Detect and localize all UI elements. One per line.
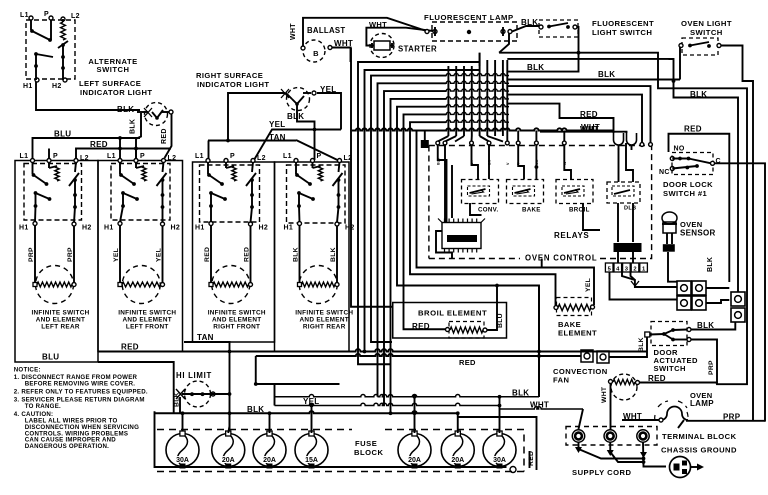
ballast xyxy=(303,40,325,62)
relay CONV. box xyxy=(462,180,499,204)
alternate switch terminal H2 xyxy=(63,78,67,82)
svg-text:RED: RED xyxy=(684,125,702,134)
infinite switch left rear L2 contact xyxy=(75,162,76,172)
svg-text:H1: H1 xyxy=(104,225,114,232)
element right rear wires xyxy=(299,226,301,285)
svg-text:BLOCK: BLOCK xyxy=(354,448,384,457)
right margin plug pair xyxy=(731,292,745,306)
wire stair 10 to bake right xyxy=(417,131,595,306)
wire door switch to plug xyxy=(691,322,735,330)
wire lamp right down to lattice xyxy=(499,34,509,53)
alternate switch L2 contact xyxy=(58,41,68,48)
svg-text:H2: H2 xyxy=(259,225,269,232)
svg-text:RED: RED xyxy=(459,358,476,367)
wire oven light switch left down xyxy=(680,48,681,80)
svg-text:NC: NC xyxy=(659,169,670,176)
infinite switch left front coil xyxy=(142,166,146,181)
wire fuse feed B xyxy=(275,395,540,397)
element left rear wires xyxy=(34,226,36,285)
wire RED long xyxy=(98,349,647,351)
infinite switch left front L2 contact xyxy=(163,162,164,172)
infinite switch left rear terminal L1 xyxy=(31,159,35,163)
wire pin bake xyxy=(518,145,524,179)
svg-text:INDICATOR LIGHT: INDICATOR LIGHT xyxy=(80,88,152,97)
wire stair 2 to RED xyxy=(365,70,481,352)
wire RED from indicator to L2 xyxy=(165,114,172,158)
svg-text:WHT: WHT xyxy=(290,23,297,40)
svg-text:L1: L1 xyxy=(283,153,292,160)
svg-text:HI LIMIT: HI LIMIT xyxy=(176,371,212,380)
fuse 20A at x=414.5 xyxy=(398,434,431,467)
svg-text:H1: H1 xyxy=(23,83,33,90)
svg-text:RED: RED xyxy=(90,140,108,149)
svg-text:BLK: BLK xyxy=(330,247,337,262)
svg-text:20A: 20A xyxy=(451,457,464,464)
oven control pins xyxy=(436,141,440,145)
svg-text:BAKE: BAKE xyxy=(522,207,541,214)
svg-text:INDICATOR LIGHT: INDICATOR LIGHT xyxy=(197,80,269,89)
infinite switch left front terminal P xyxy=(134,159,138,163)
infinite switch right front enclosure xyxy=(193,162,275,342)
wire stair 3 to TAN xyxy=(371,76,446,342)
ballast terminal left xyxy=(301,46,305,50)
svg-text:INFINITE SWITCH: INFINITE SWITCH xyxy=(118,310,176,317)
infinite switch right front terminal P xyxy=(224,159,228,163)
wire stair 4 xyxy=(378,83,447,396)
fuse block dashed box xyxy=(157,430,524,472)
wire stair 9 to bake left xyxy=(410,122,556,305)
wire lattice apex xyxy=(479,53,481,66)
svg-text:BLU: BLU xyxy=(54,130,71,139)
infinite switch left front contacts xyxy=(119,162,121,174)
svg-text:H2: H2 xyxy=(82,225,92,232)
svg-text:YEL: YEL xyxy=(113,248,120,262)
wire fuse feed E xyxy=(458,417,537,470)
svg-text:FLUORESCENT: FLUORESCENT xyxy=(592,19,654,28)
svg-text:BALLAST: BALLAST xyxy=(307,26,345,35)
wire stair 5 xyxy=(384,91,446,405)
door plug pair left xyxy=(677,281,691,295)
svg-text:BLU: BLU xyxy=(497,313,504,328)
hi limit contacts xyxy=(190,392,194,396)
wire stair 8 to broil RED xyxy=(404,114,447,329)
element right front xyxy=(212,266,250,304)
wire fuse feed C YEL xyxy=(275,403,500,405)
svg-text:H1: H1 xyxy=(19,225,29,232)
wire TAN diagonal to L2 right rear xyxy=(296,140,340,161)
terminal block box xyxy=(566,427,657,446)
svg-text:SWITCH: SWITCH xyxy=(654,364,686,373)
svg-text:L2: L2 xyxy=(257,155,266,162)
svg-text:DANGEROUS OPERATION.: DANGEROUS OPERATION. xyxy=(25,443,109,450)
infinite switch right rear enclosure xyxy=(275,162,350,352)
svg-text:TO RANGE.: TO RANGE. xyxy=(25,403,61,410)
svg-text:FAN: FAN xyxy=(553,376,569,385)
svg-text:AND ELEMENT: AND ELEMENT xyxy=(300,317,349,324)
wire relay dlb down xyxy=(617,203,619,242)
wire oven lamp right PRP xyxy=(686,420,765,422)
svg-text:L2: L2 xyxy=(168,155,177,162)
wire connector out left xyxy=(436,231,452,259)
oven sensor xyxy=(662,212,677,224)
wire fluorescent switch down xyxy=(577,27,579,53)
svg-text:RED: RED xyxy=(580,110,598,119)
wire H1 to indicator line xyxy=(36,82,140,110)
svg-text:L1: L1 xyxy=(107,153,116,160)
wire lamp to fluorescent light switch xyxy=(512,26,540,32)
svg-text:P: P xyxy=(230,153,235,160)
svg-text:LEFT SURFACE: LEFT SURFACE xyxy=(79,79,141,88)
broil element box xyxy=(393,303,507,339)
relay BROIL internals xyxy=(562,186,584,196)
bake element box xyxy=(557,298,592,316)
svg-text:H2: H2 xyxy=(345,225,355,232)
wire run D to pin xyxy=(507,95,642,143)
wire RED top xyxy=(76,149,171,159)
svg-text:SWITCH #1: SWITCH #1 xyxy=(663,189,707,198)
svg-text:TAN: TAN xyxy=(197,333,214,342)
hi limit xyxy=(185,381,211,407)
fuse 15A at x=311.5 xyxy=(295,434,328,467)
wire WHT to terminal block xyxy=(500,407,584,409)
wire lattice rungs xyxy=(446,73,509,75)
wire run E RED to fork xyxy=(507,104,614,133)
lamp center dot xyxy=(467,30,471,34)
wire hi limit left down xyxy=(179,397,181,413)
svg-text:2. REFER ONLY TO FEATURES EQUI: 2. REFER ONLY TO FEATURES EQUIPPED. xyxy=(14,388,148,395)
svg-text:BLK: BLK xyxy=(117,105,134,114)
fuse 20A at x=457.75 xyxy=(441,434,474,467)
svg-text:BLK: BLK xyxy=(287,112,304,121)
svg-text:INFINITE SWITCH: INFINITE SWITCH xyxy=(295,310,353,317)
infinite switch right front terminal H2 xyxy=(249,222,253,226)
wire connector feeds xyxy=(438,145,447,222)
alternate switch terminal L1 xyxy=(29,16,33,20)
svg-text:RIGHT SURFACE: RIGHT SURFACE xyxy=(196,71,263,80)
broil resistor xyxy=(449,322,484,339)
wire plugs right to margin xyxy=(706,287,729,289)
svg-text:LAMP: LAMP xyxy=(690,399,714,408)
infinite switch left rear terminal H1 xyxy=(33,222,37,226)
infinite switch left rear box xyxy=(24,164,82,221)
wire fan run xyxy=(538,286,540,398)
relay CONV. internals xyxy=(468,186,490,196)
svg-text:WHT: WHT xyxy=(580,125,599,134)
wire oven control to L1 line stub xyxy=(541,259,543,268)
infinite switch right front coil xyxy=(232,166,236,181)
svg-text:PRP: PRP xyxy=(723,413,741,422)
wire pin dlb2 xyxy=(626,143,633,182)
chassis ground symbol xyxy=(670,457,691,478)
relay BAKE box xyxy=(507,180,544,204)
wire BLU bottom xyxy=(98,362,174,413)
infinite switch right front box xyxy=(200,165,260,222)
svg-text:SWITCH: SWITCH xyxy=(97,65,130,74)
svg-text:L1: L1 xyxy=(195,153,204,160)
infinite switch right rear terminal L1 xyxy=(294,159,298,163)
fuse 20A at x=269.5 xyxy=(253,434,286,467)
convection fan plugs xyxy=(581,350,593,362)
svg-text:H2: H2 xyxy=(171,225,181,232)
wire TAN to L1 right front xyxy=(208,141,210,160)
ballast terminal right xyxy=(328,46,332,50)
wire oven lamp left WHT xyxy=(622,419,659,421)
door lock switch box xyxy=(672,153,713,175)
svg-text:H2: H2 xyxy=(52,83,62,90)
svg-text:20A: 20A xyxy=(263,457,276,464)
svg-text:FLUORESCENT LAMP: FLUORESCENT LAMP xyxy=(424,13,514,22)
oven control fork terminal 1 xyxy=(614,133,624,145)
infinite switch left front terminal H2 xyxy=(161,222,165,226)
right indicator terminal xyxy=(312,91,316,95)
svg-text:LIGHT SWITCH: LIGHT SWITCH xyxy=(592,28,652,37)
infinite switch right front L2 contact xyxy=(252,162,253,172)
svg-text:RIGHT FRONT: RIGHT FRONT xyxy=(213,324,260,331)
svg-text:DLB: DLB xyxy=(624,206,636,212)
fuse block solid box xyxy=(155,411,507,467)
wire lattice bus xyxy=(352,128,614,130)
wire fan left down WHT xyxy=(610,384,612,431)
svg-text:15A: 15A xyxy=(305,457,318,464)
svg-text:BLK: BLK xyxy=(527,63,544,72)
relay DLB box xyxy=(607,182,640,203)
element right front wires xyxy=(210,226,212,285)
infinite switch right front contacts xyxy=(207,162,209,174)
oven control pins right xyxy=(640,143,644,147)
svg-text:STARTER: STARTER xyxy=(398,45,437,54)
svg-text:H1: H1 xyxy=(284,225,294,232)
relay BROIL box xyxy=(556,180,593,204)
infinite switch left front terminal L1 xyxy=(118,159,122,163)
infinite switch left rear terminal H2 xyxy=(72,222,76,226)
left indicator terminal right xyxy=(169,110,173,114)
alternate switch terminal L2 xyxy=(61,17,65,21)
infinite switch left front terminal L2 xyxy=(162,159,166,163)
door plug pair right xyxy=(692,281,706,295)
svg-text:L1: L1 xyxy=(20,12,29,19)
svg-text:YEL: YEL xyxy=(269,120,285,129)
oven control connector xyxy=(442,223,481,249)
wire BLK long xyxy=(508,79,680,81)
svg-text:DOOR LOCK: DOOR LOCK xyxy=(663,180,713,189)
svg-text:RELAYS: RELAYS xyxy=(554,231,589,240)
svg-text:RED: RED xyxy=(121,343,139,352)
svg-text:AND ELEMENT: AND ELEMENT xyxy=(212,317,261,324)
wire pin conv2 xyxy=(488,145,490,179)
wire P left rear up xyxy=(48,149,50,159)
fluorescent light switch contacts xyxy=(539,25,543,29)
infinite switch left front box xyxy=(111,164,170,221)
svg-text:30A: 30A xyxy=(176,457,189,464)
svg-text:RIGHT REAR: RIGHT REAR xyxy=(303,324,346,331)
wire fuse drops xyxy=(269,413,271,433)
wire ballast drop to broil box xyxy=(351,48,393,307)
svg-text:BLU: BLU xyxy=(42,353,59,362)
wire stair 1 xyxy=(358,62,480,364)
svg-text:P: P xyxy=(140,153,145,160)
wire P left front up xyxy=(135,149,137,159)
svg-text:20A: 20A xyxy=(408,457,421,464)
svg-text:P: P xyxy=(317,153,322,160)
svg-text:BLK: BLK xyxy=(130,119,137,134)
svg-text:ELEMENT: ELEMENT xyxy=(558,329,597,338)
infinite switch right rear contacts xyxy=(295,162,297,174)
oven control fork terminal 2 xyxy=(627,133,637,145)
svg-text:RED: RED xyxy=(412,322,430,331)
svg-text:BROIL: BROIL xyxy=(569,207,590,214)
svg-text:PRP: PRP xyxy=(28,247,35,262)
svg-text:L2: L2 xyxy=(80,155,89,162)
wire stair 7 L3 run xyxy=(397,107,539,397)
wire TAN bottom xyxy=(184,342,230,433)
svg-text:YEL: YEL xyxy=(585,278,592,292)
svg-text:RED: RED xyxy=(204,247,211,262)
wire run F WHT to fork xyxy=(540,132,627,133)
oven lamp xyxy=(661,407,688,420)
wire run C to pin xyxy=(508,86,651,142)
svg-text:LEFT REAR: LEFT REAR xyxy=(41,324,80,331)
wire fan plugs to door switch xyxy=(609,335,647,358)
wire pin bake2 xyxy=(535,145,537,179)
wire door lock C to margin xyxy=(715,163,766,421)
svg-text:WHT: WHT xyxy=(623,412,642,421)
wire lattice diagonals xyxy=(438,136,449,142)
supply cord wires xyxy=(579,443,644,459)
infinite switch left front enclosure xyxy=(98,161,183,352)
infinite switch left front terminal H1 xyxy=(118,222,122,226)
element left rear xyxy=(36,266,74,304)
svg-text:H1: H1 xyxy=(195,225,205,232)
svg-text:TAN: TAN xyxy=(269,133,286,142)
svg-text:PRP: PRP xyxy=(67,247,74,262)
wire broil right xyxy=(487,286,497,331)
wire top run A xyxy=(499,53,747,385)
infinite switch left rear enclosure xyxy=(15,161,98,363)
door actuated switch contacts xyxy=(645,332,650,337)
wire stair 6 xyxy=(391,99,447,413)
wire oven light switch right to margin xyxy=(721,46,753,422)
svg-text:AND ELEMENT: AND ELEMENT xyxy=(36,317,85,324)
wire BLU down to L1 left front xyxy=(119,138,121,158)
svg-text:BLK: BLK xyxy=(293,247,300,262)
infinite switch right rear terminal H2 xyxy=(335,222,339,226)
svg-text:NO: NO xyxy=(674,146,685,153)
svg-text:BLK: BLK xyxy=(707,257,714,272)
right surface indicator light xyxy=(287,88,310,111)
infinite switch right rear box xyxy=(287,165,346,223)
wire starter to lamp xyxy=(366,28,433,46)
alternate switch box xyxy=(26,20,75,79)
svg-text:INFINITE SWITCH: INFINITE SWITCH xyxy=(31,310,89,317)
wire to door lock box xyxy=(669,58,674,60)
svg-text:RED: RED xyxy=(161,128,168,144)
wire YEL to L2 right front xyxy=(254,130,341,161)
svg-text:WHT: WHT xyxy=(530,401,549,410)
terminal block terminals xyxy=(572,430,584,442)
wire pin broil xyxy=(564,145,571,179)
door actuated switch box xyxy=(651,322,687,346)
svg-text:SENSOR: SENSOR xyxy=(680,229,716,238)
wire ballast top xyxy=(303,18,425,46)
left surface indicator light xyxy=(145,103,168,126)
svg-text:RED: RED xyxy=(244,247,251,262)
infinite switch right rear terminal P xyxy=(311,159,315,163)
wire top run B xyxy=(507,59,738,292)
svg-text:AND ELEMENT: AND ELEMENT xyxy=(123,317,172,324)
svg-text:TERMINAL BLOCK: TERMINAL BLOCK xyxy=(662,432,737,441)
svg-text:BLK: BLK xyxy=(521,18,538,27)
wire relay conv down xyxy=(470,203,482,215)
starter xyxy=(370,34,394,58)
infinite switch right front terminal L2 xyxy=(251,159,255,163)
svg-text:BLK: BLK xyxy=(690,90,707,99)
svg-text:OVEN CONTROL: OVEN CONTROL xyxy=(525,254,597,263)
svg-text:CHASSIS GROUND: CHASSIS GROUND xyxy=(661,446,737,455)
oven light switch box xyxy=(682,38,718,55)
alternate switch internal contacts xyxy=(30,20,32,30)
svg-text:BEFORE REMOVING WIRE COVER.: BEFORE REMOVING WIRE COVER. xyxy=(25,381,136,388)
fluorescent light switch box xyxy=(539,20,578,37)
svg-text:SUPPLY CORD: SUPPLY CORD xyxy=(572,468,632,477)
svg-text:P: P xyxy=(44,11,49,18)
lamp right terminals xyxy=(501,30,505,34)
infinite switch left rear coil xyxy=(55,166,59,181)
svg-text:BLK: BLK xyxy=(512,389,529,398)
infinite switch right rear L2 contact xyxy=(339,162,340,172)
wire TAN run xyxy=(208,140,296,142)
oven control black connector xyxy=(614,243,642,252)
fuse 20A at x=228.25 xyxy=(212,434,245,467)
wire BLK short xyxy=(507,53,578,72)
infinite switch left rear contacts xyxy=(32,162,34,174)
svg-text:SWITCH: SWITCH xyxy=(690,28,723,37)
wire stair A xyxy=(256,356,340,384)
svg-text:BLK: BLK xyxy=(247,405,264,414)
wire black connector to numbered xyxy=(617,252,619,263)
wire BLK from indicator down xyxy=(136,113,141,160)
wire from right indicator left to TAN run xyxy=(228,93,285,141)
element left front wires xyxy=(119,226,121,285)
numbered connector 54321 xyxy=(605,263,613,272)
wire ballast right down to bundle xyxy=(332,48,351,63)
wire lattice verticals xyxy=(447,66,449,136)
wire pin dlb xyxy=(618,148,620,182)
svg-text:BLK: BLK xyxy=(598,70,615,79)
svg-text:BLK: BLK xyxy=(638,337,645,352)
element left front xyxy=(122,266,160,304)
fuse 30A at x=182.5 xyxy=(166,434,199,467)
wire pin conv xyxy=(472,145,479,179)
oven light switch contacts xyxy=(679,44,683,48)
fluorescent lamp box xyxy=(432,22,517,41)
svg-text:RED: RED xyxy=(648,374,666,383)
svg-text:P: P xyxy=(53,153,58,160)
svg-text:20A: 20A xyxy=(222,457,235,464)
infinite switch left rear terminal L2 xyxy=(74,159,78,163)
relay BAKE internals xyxy=(513,186,535,196)
oven sensor black pin xyxy=(663,244,675,252)
wire fuse feed D BLK xyxy=(155,411,458,413)
infinite switch right front terminal L1 xyxy=(206,159,210,163)
svg-text:30A: 30A xyxy=(493,457,506,464)
door lock contacts xyxy=(670,157,674,161)
oven control box xyxy=(429,146,652,259)
alternate switch terminal P xyxy=(49,16,53,20)
svg-text:YEL: YEL xyxy=(303,397,319,406)
wire BLK from indicator bottom xyxy=(297,105,315,160)
door lock enclosure xyxy=(669,134,730,282)
wire mid run to fan plugs xyxy=(256,354,539,356)
